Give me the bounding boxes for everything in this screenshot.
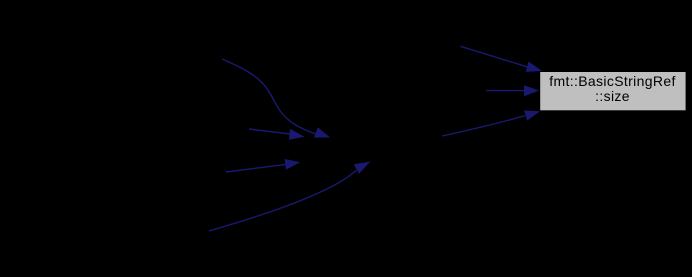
- edge G: arrow from hidden upper middle node into top-left of size box: [461, 46, 543, 72]
- svg-text:::size: ::size: [595, 88, 630, 104]
- svg-text:fmt::BasicStringRef: fmt::BasicStringRef: [549, 73, 675, 89]
- edge E: arrow from hidden lower middle node into bottom-left of size box: [442, 110, 540, 136]
- edge F: horizontal arrow from hidden middle node into left-center of size box: [486, 85, 539, 96]
- node: fmt::BasicStringRef::size (highlighted grey box): [540, 72, 685, 110]
- edge D: long curved caller arrow from bottom-left into hidden lower middle node: [209, 162, 371, 232]
- edge A: curved caller arrow from top-left into hidden middle node: [222, 59, 330, 138]
- edge C: short straight caller arrow into hidden lower middle node: [226, 159, 300, 172]
- edge B: short straight caller arrow into hidden middle node: [249, 129, 304, 140]
